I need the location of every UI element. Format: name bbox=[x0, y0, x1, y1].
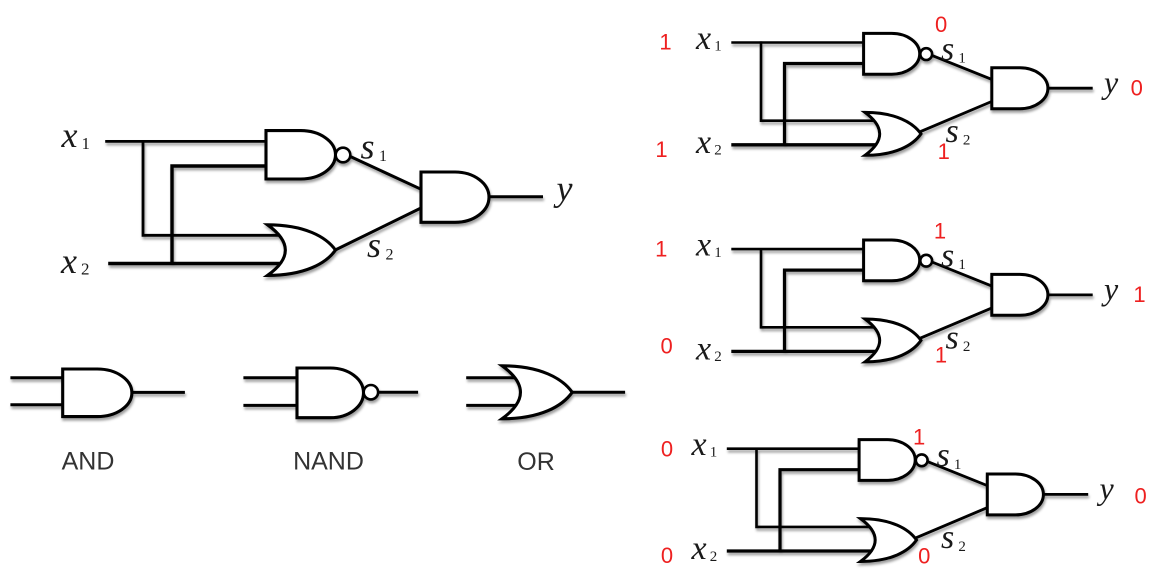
legend NAND symbol input wires bbox=[243, 378, 298, 406]
wire: B s2 from OR output to AND pin 2 bbox=[921, 308, 993, 339]
svg-text:y: y bbox=[1101, 64, 1119, 100]
wire: A s2 from OR output to AND pin 2 bbox=[921, 101, 993, 132]
wire: B branch from x2 up to NAND pin 2 bbox=[785, 270, 866, 353]
svg-text:x2: x2 bbox=[695, 331, 722, 368]
svg-text:1: 1 bbox=[934, 219, 946, 244]
svg-text:0: 0 bbox=[918, 543, 930, 568]
legend AND gate symbol bbox=[63, 369, 132, 417]
wire: A x2 input to OR pin 2 bbox=[731, 143, 876, 146]
wire: C y output from AND bbox=[1043, 493, 1088, 496]
AND gate CU3 bbox=[987, 474, 1043, 515]
wire: C branch from x2 up to NAND pin 2 bbox=[780, 470, 861, 553]
svg-text:s2: s2 bbox=[946, 320, 971, 357]
svg-text:0: 0 bbox=[1131, 75, 1143, 100]
svg-text:x2: x2 bbox=[60, 241, 89, 281]
OR gate CU2 bbox=[861, 519, 917, 562]
svg-text:y: y bbox=[1101, 270, 1119, 306]
svg-text:0: 0 bbox=[660, 333, 672, 358]
svg-text:AND: AND bbox=[62, 448, 115, 476]
svg-text:OR: OR bbox=[517, 448, 555, 476]
wire: y output from AND bbox=[489, 195, 543, 198]
svg-text:s2: s2 bbox=[941, 519, 966, 556]
wire: A x1 input to NAND pin 1 bbox=[731, 41, 865, 44]
NAND gate CU1 bbox=[859, 440, 928, 481]
svg-text:s1: s1 bbox=[361, 126, 388, 166]
wire: C branch from x1 down to OR pin 1 bbox=[757, 448, 874, 527]
svg-text:x1: x1 bbox=[695, 20, 722, 57]
wire: C x2 input to OR pin 2 bbox=[727, 549, 872, 552]
wire: B y output from AND bbox=[1048, 293, 1093, 296]
AND gate BU3 bbox=[992, 274, 1048, 315]
legend OR symbol output wire bbox=[572, 391, 626, 394]
wire: B s1 from NAND bubble to AND pin 1 bbox=[932, 262, 993, 286]
wire: A y output from AND bbox=[1048, 87, 1093, 90]
legend OR symbol input wires bbox=[466, 378, 521, 406]
wire: C s1 from NAND bubble to AND pin 1 bbox=[928, 462, 989, 486]
NAND gate AU1 bbox=[864, 33, 933, 74]
AND gate U3 (inputs s1, s2; output y) bbox=[421, 172, 489, 222]
svg-text:1: 1 bbox=[655, 236, 667, 261]
svg-text:1: 1 bbox=[913, 425, 925, 450]
AND gate AU3 bbox=[992, 68, 1048, 109]
wire: A s1 from NAND bubble to AND pin 1 bbox=[932, 55, 993, 79]
svg-text:x1: x1 bbox=[695, 226, 722, 263]
wire: x2 input to OR pin 2 bbox=[108, 262, 280, 266]
svg-text:y: y bbox=[554, 169, 573, 209]
wire: A branch from x1 down to OR pin 1 bbox=[761, 41, 878, 120]
NAND gate BU1 bbox=[864, 240, 933, 281]
svg-text:y: y bbox=[1097, 470, 1115, 506]
wire: branch from x2 up to NAND pin 2 (junction at x=172) bbox=[172, 166, 268, 265]
legend AND symbol input wires bbox=[10, 378, 63, 405]
wire: s1 from NAND bubble to AND pin 1 bbox=[350, 157, 422, 190]
svg-text:NAND: NAND bbox=[293, 448, 364, 476]
svg-text:x2: x2 bbox=[695, 124, 722, 161]
wire: B x2 input to OR pin 2 bbox=[731, 350, 876, 353]
wire: A branch from x2 up to NAND pin 2 bbox=[785, 64, 866, 147]
wire: s2 from OR output to AND pin 2 bbox=[335, 208, 422, 251]
svg-text:s2: s2 bbox=[367, 225, 394, 265]
svg-text:x1: x1 bbox=[61, 115, 90, 155]
svg-text:1: 1 bbox=[1133, 282, 1145, 307]
svg-text:0: 0 bbox=[661, 543, 673, 568]
wire: C s2 from OR output to AND pin 2 bbox=[916, 507, 988, 538]
svg-text:1: 1 bbox=[655, 137, 667, 162]
svg-text:1: 1 bbox=[935, 343, 947, 368]
wire: branch from x1 down to OR pin 1 (junction at x=143) bbox=[143, 140, 282, 235]
wire: C x1 input to NAND pin 1 bbox=[727, 447, 861, 450]
wire: x1 input to NAND pin 1 bbox=[105, 140, 267, 143]
svg-text:x1: x1 bbox=[691, 426, 718, 463]
NAND gate U1 (inputs x1, x2; output s1) bbox=[266, 131, 350, 179]
svg-text:s1: s1 bbox=[937, 437, 962, 474]
legend OR gate symbol bbox=[502, 366, 572, 419]
svg-text:1: 1 bbox=[659, 30, 671, 55]
svg-text:0: 0 bbox=[935, 12, 947, 37]
OR gate AU2 bbox=[865, 112, 921, 155]
OR gate BU2 bbox=[865, 319, 921, 362]
wire: B branch from x1 down to OR pin 1 bbox=[761, 248, 878, 327]
svg-text:0: 0 bbox=[661, 437, 673, 462]
OR gate U2 (inputs x1, x2; output s2) bbox=[268, 225, 336, 276]
svg-text:0: 0 bbox=[1134, 484, 1146, 509]
svg-text:x2: x2 bbox=[691, 530, 718, 567]
wire: B x1 input to NAND pin 1 bbox=[731, 248, 865, 251]
legend NAND gate symbol bbox=[297, 368, 378, 418]
legend NAND symbol output wire bbox=[378, 391, 418, 394]
legend AND symbol output wire bbox=[132, 391, 185, 394]
svg-text:1: 1 bbox=[938, 139, 950, 164]
